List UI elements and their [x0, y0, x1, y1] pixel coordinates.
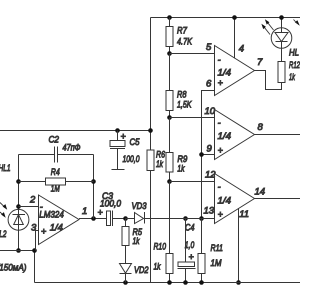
wire output 7 staircase	[255, 71, 282, 90]
resistor R5	[125, 219, 127, 227]
LED HL	[271, 28, 292, 49]
svg-text:-: -	[218, 118, 221, 128]
svg-text:1k: 1k	[154, 261, 162, 272]
svg-text:1M: 1M	[211, 258, 222, 269]
svg-text:+: +	[189, 252, 194, 262]
svg-text:-: -	[218, 55, 221, 65]
wire left vertical bus upper segment	[150, 18, 152, 151]
wire output 1	[79, 218, 107, 220]
arrowhead right edge	[295, 20, 300, 26]
svg-text:+: +	[41, 227, 46, 237]
svg-text:R12: R12	[289, 60, 300, 71]
op-amp U1.3	[215, 110, 255, 160]
node junction pin9	[199, 152, 204, 157]
svg-text:1k: 1k	[133, 236, 141, 247]
svg-text:HL1: HL1	[0, 163, 11, 174]
svg-text:10: 10	[205, 106, 216, 117]
svg-text:HL2: HL2	[0, 229, 7, 240]
node junction pin11 bottom	[236, 280, 241, 285]
svg-text:4.7K: 4.7K	[177, 36, 193, 47]
wire pin 4	[234, 18, 236, 59]
node junction R7/R8 pin5	[167, 51, 172, 56]
capacitor C3	[107, 211, 111, 226]
photodiode HL2	[18, 155, 20, 251]
svg-text:(150мА): (150мА)	[0, 262, 27, 273]
svg-text:100,0: 100,0	[123, 154, 141, 165]
wire pin 3 riser	[36, 231, 39, 251]
capacitor C2	[19, 154, 55, 156]
svg-text:14: 14	[255, 187, 266, 198]
svg-text:R7: R7	[177, 26, 188, 37]
photodiode arrows	[0, 203, 7, 218]
node junction R9 bottom pin12	[167, 179, 172, 184]
svg-text:C4: C4	[185, 222, 195, 233]
wire output 8	[255, 134, 301, 136]
svg-text:1k: 1k	[177, 163, 185, 174]
resistor R6	[147, 150, 154, 171]
svg-text:1,0: 1,0	[185, 240, 195, 251]
svg-text:1k: 1k	[156, 159, 164, 170]
svg-text:C5: C5	[130, 137, 141, 148]
wire horizontal supply y=130	[0, 130, 151, 132]
svg-text:+: +	[218, 210, 223, 220]
node junction feedback/output	[91, 216, 96, 221]
wire LED top	[281, 18, 283, 29]
svg-text:1/4: 1/4	[50, 223, 63, 234]
node junction VD2 bottom	[123, 280, 128, 285]
svg-text:+: +	[121, 132, 126, 142]
svg-text:1/4: 1/4	[218, 131, 232, 142]
svg-text:6: 6	[206, 79, 212, 90]
node junction pin3 riser	[32, 248, 37, 253]
svg-text:2: 2	[29, 194, 36, 205]
wire pin 5	[170, 53, 215, 55]
wire top supply bus	[151, 17, 301, 19]
svg-text:13: 13	[204, 206, 215, 217]
svg-text:VD3: VD3	[132, 201, 148, 212]
LED emission arrows	[261, 19, 273, 34]
svg-text:4: 4	[239, 44, 244, 55]
svg-text:HL: HL	[289, 48, 299, 59]
op-amp U1.4	[215, 174, 255, 224]
wire R12 to LED	[281, 49, 283, 62]
svg-text:1/4: 1/4	[218, 196, 232, 207]
svg-text:LM324: LM324	[39, 210, 64, 221]
diode VD3	[126, 218, 135, 220]
svg-text:C2: C2	[49, 135, 60, 146]
svg-text:1k: 1k	[289, 72, 296, 83]
resistor R9	[169, 118, 171, 153]
wire feedback riser	[93, 155, 95, 219]
svg-text:1,5K: 1,5K	[177, 100, 192, 111]
svg-text:8: 8	[258, 122, 264, 133]
svg-text:5: 5	[206, 42, 212, 53]
wire pin 12	[170, 181, 215, 183]
node junction pin4 top	[232, 15, 237, 20]
node junction photodiode bottom	[16, 248, 21, 253]
resistor R8	[169, 54, 171, 91]
resistor R7	[169, 18, 171, 27]
resistor R12	[278, 62, 285, 83]
svg-text:R11: R11	[211, 243, 224, 254]
wire output 14	[255, 198, 301, 200]
svg-text:47пФ: 47пФ	[63, 143, 81, 154]
svg-text:R4: R4	[51, 167, 60, 178]
wire left vertical bus lower segment	[150, 171, 152, 283]
node junction pin2	[16, 204, 21, 209]
node junction R10 bottom	[167, 280, 172, 285]
svg-text:+: +	[218, 78, 223, 88]
svg-text:-: -	[218, 182, 221, 192]
wire R9 to R10	[169, 182, 171, 254]
resistor R10	[166, 254, 173, 274]
node junction R7 top	[167, 15, 172, 20]
node junction R5 top	[123, 216, 128, 221]
node junction bus/y130	[148, 128, 153, 133]
svg-text:1: 1	[82, 206, 87, 217]
resistor R11	[201, 219, 203, 254]
op-amp U1.2	[215, 46, 255, 96]
wire pin 10	[170, 117, 215, 119]
svg-text:100,0: 100,0	[100, 199, 122, 210]
node junction R11 bottom	[199, 280, 204, 285]
node junction bias pin13	[199, 216, 204, 221]
wire bottom left to edge	[0, 250, 35, 252]
svg-text:1/4: 1/4	[218, 67, 232, 78]
wire pin 6 / bias net riser	[202, 91, 215, 219]
node junction R4 right	[91, 179, 96, 184]
node junction C5/y130	[115, 128, 120, 133]
svg-text:11: 11	[239, 209, 249, 220]
svg-text:R10: R10	[154, 241, 167, 252]
node junction R8/R9 pin10	[167, 115, 172, 120]
svg-text:7: 7	[257, 57, 263, 68]
wire pin 2	[19, 206, 39, 208]
svg-text:VD2: VD2	[134, 265, 149, 276]
node junction C4 bottom	[183, 280, 188, 285]
wire corner to ground bus	[34, 251, 36, 283]
svg-text:12: 12	[205, 170, 216, 181]
node junction LED top	[279, 15, 284, 20]
diode VD2	[120, 264, 132, 274]
svg-text:+: +	[218, 145, 223, 155]
svg-text:3: 3	[31, 223, 37, 234]
op-amp U1.1 LM324	[39, 195, 80, 245]
node junction R4 left	[16, 179, 21, 184]
svg-text:9: 9	[207, 144, 213, 155]
wire pin 11	[238, 208, 240, 282]
capacitor C4	[183, 216, 188, 221]
bottom ground bus	[35, 282, 301, 284]
resistor R4	[19, 181, 46, 183]
wire pin 9	[202, 154, 215, 156]
svg-text:1M: 1M	[51, 183, 60, 194]
capacitor C5	[117, 131, 119, 141]
